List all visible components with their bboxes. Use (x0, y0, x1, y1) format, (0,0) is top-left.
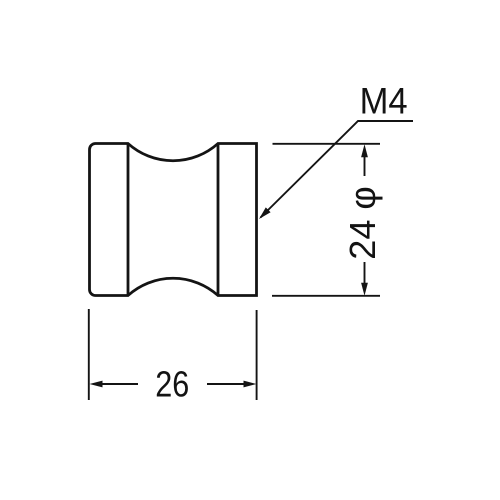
leader line M4 (259, 121, 413, 219)
label 24phi (rotated) (342, 186, 383, 259)
horizontal dimension line 26 (90, 381, 257, 388)
vertical dimension line 24 (361, 144, 368, 295)
svg-text:24 φ: 24 φ (342, 186, 383, 259)
extension line top (24 dim) (273, 143, 381, 145)
right flange inner line (217, 144, 220, 296)
svg-text:M4: M4 (360, 80, 408, 121)
label M4 (360, 80, 408, 121)
extension line left (26 dim) (88, 309, 90, 400)
svg-text:26: 26 (155, 364, 189, 405)
label 26 (155, 364, 189, 405)
left flange inner line (127, 144, 130, 296)
extension line bottom (24 dim) (272, 295, 380, 297)
extension line right (26 dim) (256, 310, 258, 400)
knob body outline (90, 144, 257, 296)
